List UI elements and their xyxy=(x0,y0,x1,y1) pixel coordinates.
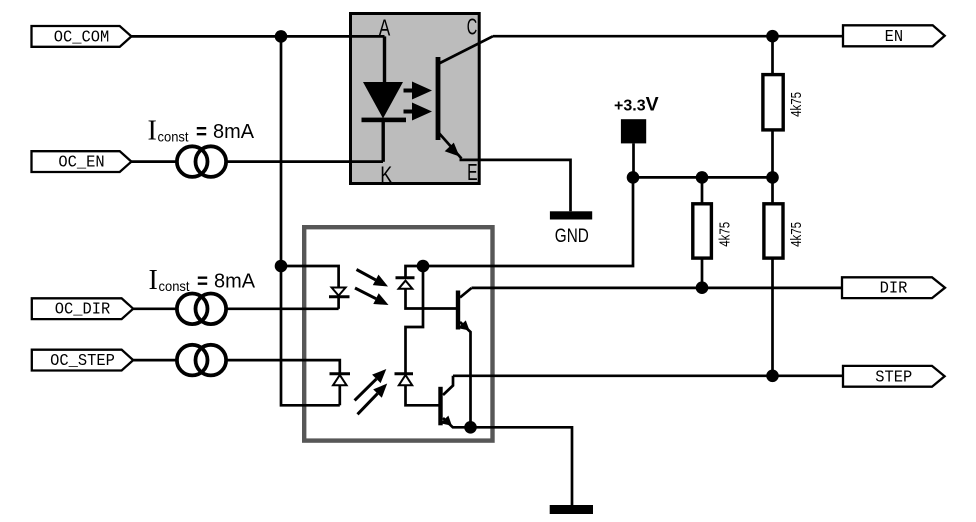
svg-text:I: I xyxy=(149,265,158,296)
wire U1 anode drop xyxy=(383,36,386,82)
photodiode D5 triangle xyxy=(399,375,412,385)
svg-text:E: E xyxy=(467,159,478,185)
resistor R3 xyxy=(764,204,783,258)
svg-text:I: I xyxy=(148,115,157,146)
wire D3 cathode to +3V3 net xyxy=(406,266,424,278)
value label Iconst = 8mA (EN) xyxy=(148,115,255,146)
svg-text:const: const xyxy=(158,128,189,144)
wire OC_DIR net xyxy=(133,307,338,310)
wire OC_EN net xyxy=(131,160,383,163)
net flag EN xyxy=(843,25,945,46)
wire OC_COM net xyxy=(131,35,384,38)
svg-text:A: A xyxy=(379,14,391,40)
svg-text:OC_STEP: OC_STEP xyxy=(50,351,115,370)
junction EN / R1 xyxy=(766,30,779,43)
wire +3V3 to lower photodiode xyxy=(406,266,424,374)
wire STEP net xyxy=(453,374,843,377)
wire R3 top xyxy=(771,177,774,203)
light arrow D2 upper xyxy=(357,270,389,287)
junction rail at R2 xyxy=(696,171,709,184)
net flag OC_EN xyxy=(32,151,132,172)
svg-text:+3.3V: +3.3V xyxy=(614,93,659,115)
svg-text:OC_COM: OC_COM xyxy=(54,27,110,46)
optocoupler U2 body xyxy=(304,227,492,440)
svg-text:=: = xyxy=(197,268,208,293)
power symbol +3.3V xyxy=(621,119,646,177)
net flag OC_STEP xyxy=(32,350,133,371)
net flag STEP xyxy=(843,366,945,387)
junction rail at R1/R3 xyxy=(766,171,779,184)
transistor Q2 base bar xyxy=(456,291,460,330)
transistor Q3 emitter arrow xyxy=(440,416,452,426)
wire R2 top xyxy=(701,177,704,203)
wire R3 bottom xyxy=(771,258,774,376)
wire DIR LED cathode down xyxy=(337,297,340,309)
transistor Q2 collector xyxy=(460,288,472,298)
current source I1 (8mA) xyxy=(177,146,226,177)
wire D3 anode to Q2 base xyxy=(406,289,457,309)
svg-text:EN: EN xyxy=(885,27,904,46)
LED D2 cathode bar xyxy=(329,295,350,298)
svg-text:OC_EN: OC_EN xyxy=(58,153,104,172)
phototransistor Q1 base bar xyxy=(436,57,441,140)
wire D4 anode return xyxy=(338,385,341,405)
STEP LED D4 cathode bar xyxy=(330,372,351,375)
transistor Q3 emitter xyxy=(443,418,471,427)
LED D1 triangle xyxy=(363,82,403,119)
wire EN net xyxy=(493,35,843,38)
net flag OC_DIR xyxy=(32,298,133,319)
svg-text:4k75: 4k75 xyxy=(788,92,805,117)
junction DIR / R2 xyxy=(696,281,709,294)
wire +3V3 rail xyxy=(633,176,773,179)
wire R2 bottom xyxy=(701,258,704,288)
transistor Q3 collector xyxy=(443,376,453,395)
light arrow D4 lower xyxy=(358,384,388,415)
phototransistor Q1 emitter arrow xyxy=(445,143,460,157)
junction rail at +3V3 stem xyxy=(627,171,640,184)
transistor Q2 emitter arrow xyxy=(458,320,470,330)
svg-text:K: K xyxy=(380,162,393,188)
junction common node xyxy=(275,260,288,273)
wire R1 bottom xyxy=(771,130,774,178)
svg-text:8mA: 8mA xyxy=(213,120,254,143)
phototransistor Q1 collector xyxy=(438,36,493,64)
svg-text:DIR: DIR xyxy=(880,279,908,298)
net flag OC_COM xyxy=(32,26,132,47)
wire OC_STEP net xyxy=(133,360,340,374)
transistor Q2 emitter xyxy=(460,322,471,427)
photodiode D3 (DIR) cathode bar xyxy=(396,276,415,279)
wire R1 top xyxy=(771,36,774,74)
light arrow D4 upper xyxy=(355,369,387,400)
wire DIR net xyxy=(472,287,843,290)
svg-text:C: C xyxy=(467,13,478,39)
junction +3V3 photo node xyxy=(417,260,430,273)
svg-text:4k75: 4k75 xyxy=(716,222,733,247)
svg-text:const: const xyxy=(159,278,190,294)
resistor R2 xyxy=(693,204,712,258)
photodiode D3 triangle xyxy=(399,281,413,289)
svg-text:OC_DIR: OC_DIR xyxy=(55,300,111,319)
net flag DIR xyxy=(842,277,945,298)
phototransistor Q1 emitter xyxy=(438,132,462,159)
light arrow D2 lower xyxy=(355,288,389,305)
LED D2 (DIR) triangle xyxy=(332,288,346,296)
svg-text:8mA: 8mA xyxy=(214,269,255,292)
junction emitter common xyxy=(464,421,477,434)
current source I3 (8mA) xyxy=(177,345,226,376)
wire E pin to ground xyxy=(460,160,571,211)
LED D1 cathode bar xyxy=(362,118,407,123)
ground bar (top GND) xyxy=(550,211,592,219)
junction OC_COM at top xyxy=(275,30,288,43)
transistor Q3 base bar xyxy=(438,387,442,426)
wire D5 anode to Q3 base xyxy=(406,385,441,405)
wire OC_COM vertical drop xyxy=(280,36,283,266)
wire common vertical (OC_COM to LED returns) xyxy=(281,266,340,405)
photodiode D5 (STEP) cathode bar xyxy=(395,372,414,375)
value label Iconst = 8mA (DIR) xyxy=(149,265,256,296)
wire U1 cathode to K xyxy=(382,121,385,162)
optocoupler U1 body xyxy=(351,14,480,184)
svg-text:=: = xyxy=(196,119,207,144)
svg-text:4k75: 4k75 xyxy=(788,222,805,247)
svg-text:STEP: STEP xyxy=(875,367,912,386)
ground bar (bottom) xyxy=(550,505,593,514)
current source I2 (8mA) xyxy=(177,294,226,325)
light arrow U1 lower xyxy=(404,103,433,121)
wire DIR LED anode xyxy=(281,266,339,288)
LED D4 triangle xyxy=(333,375,347,385)
wire +3V3 down-leg to photodiodes xyxy=(423,177,633,266)
resistor R1 xyxy=(763,75,783,130)
junction STEP / R3 xyxy=(766,370,779,383)
wire emitter common to ground xyxy=(471,427,573,505)
light arrow U1 upper xyxy=(404,82,433,100)
svg-text:GND: GND xyxy=(555,226,589,247)
